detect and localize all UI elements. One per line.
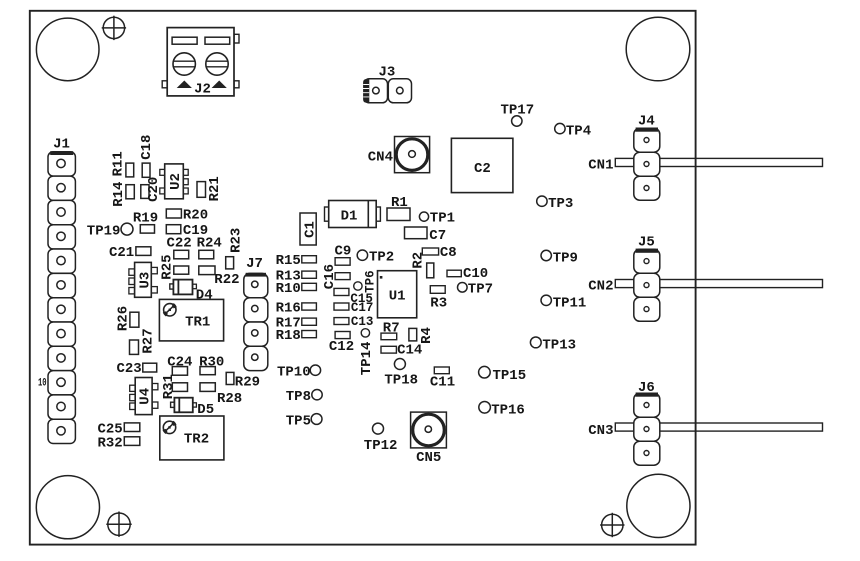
svg-text:D1: D1 <box>341 208 358 224</box>
svg-text:TP6: TP6 <box>363 270 377 293</box>
trimmer TR2 <box>160 416 224 460</box>
resistor R10 <box>276 281 317 297</box>
capacitor C16 <box>322 264 350 289</box>
svg-text:C8: C8 <box>440 245 457 261</box>
test point TP1 <box>419 210 455 226</box>
svg-text:R18: R18 <box>276 328 301 344</box>
connector pin CN2 lead bar <box>615 280 822 288</box>
svg-text:TP8: TP8 <box>286 389 311 405</box>
resistor R16 <box>276 300 317 316</box>
resistor R19 <box>133 211 158 233</box>
capacitor C2 <box>451 138 513 192</box>
pin 10 label of J1 <box>38 377 47 389</box>
test point TP8 pad <box>312 390 322 400</box>
svg-text:TR2: TR2 <box>184 432 209 448</box>
capacitor C11 <box>430 367 455 391</box>
trimmer TR1 <box>159 299 223 341</box>
capacitor C10 <box>447 266 488 282</box>
svg-text:C7: C7 <box>429 228 446 244</box>
svg-text:R10: R10 <box>276 281 301 297</box>
svg-text:TP1: TP1 <box>430 210 455 226</box>
test point TP12 <box>364 423 398 454</box>
connector J7 (4-pin header) <box>244 256 268 370</box>
resistor R17 <box>276 316 317 332</box>
capacitor C24 <box>167 355 192 376</box>
connector J5 (3-pin) <box>634 235 660 322</box>
label CN2 <box>588 278 613 294</box>
connector pin CN1 lead bar <box>615 158 822 166</box>
svg-text:TP7: TP7 <box>468 281 493 297</box>
svg-text:TP15: TP15 <box>493 368 527 384</box>
svg-text:C13: C13 <box>351 315 374 329</box>
test point TP13 <box>530 337 576 353</box>
svg-text:J2: J2 <box>194 82 211 98</box>
svg-text:TP10: TP10 <box>277 364 311 380</box>
fiducial mark bottom-left <box>106 512 131 537</box>
test point TP14 <box>359 329 375 376</box>
test point TP5 pad <box>311 414 322 425</box>
resistor R14 <box>111 182 134 207</box>
resistor R25 <box>160 254 189 279</box>
test point TP17 <box>501 102 535 126</box>
svg-text:R15: R15 <box>276 253 301 269</box>
svg-text:R27: R27 <box>140 328 156 353</box>
svg-text:R14: R14 <box>111 182 127 207</box>
svg-text:R20: R20 <box>183 208 208 224</box>
svg-text:TP13: TP13 <box>542 337 576 353</box>
board outline <box>30 11 696 545</box>
svg-text:C21: C21 <box>109 245 134 261</box>
svg-text:C1: C1 <box>302 221 318 238</box>
resistor R31 <box>161 374 188 399</box>
capacitor C17 <box>334 301 373 315</box>
svg-text:J5: J5 <box>638 235 655 251</box>
resistor R3 <box>430 286 447 312</box>
svg-text:C11: C11 <box>430 375 455 391</box>
svg-text:C17: C17 <box>351 301 374 315</box>
svg-text:TP19: TP19 <box>87 224 121 240</box>
test point TP5 <box>286 413 311 429</box>
resistor R30 <box>199 355 224 375</box>
svg-text:TP4: TP4 <box>566 124 591 140</box>
coax connector CN4 <box>368 137 430 173</box>
svg-text:C23: C23 <box>116 361 141 377</box>
capacitor C13 <box>334 315 373 329</box>
IC U1 <box>378 271 417 318</box>
svg-text:TP18: TP18 <box>384 373 418 389</box>
svg-text:CN2: CN2 <box>588 278 613 294</box>
svg-text:R22: R22 <box>214 272 239 288</box>
capacitor C21 <box>109 245 151 261</box>
capacitor C19 <box>166 223 208 239</box>
resistor R22 <box>199 266 240 288</box>
svg-text:U3: U3 <box>137 272 153 289</box>
svg-text:J1: J1 <box>53 137 70 153</box>
svg-text:R29: R29 <box>235 374 260 390</box>
svg-text:TP16: TP16 <box>491 402 525 418</box>
test point TP11 <box>541 295 586 312</box>
svg-text:U2: U2 <box>168 173 184 190</box>
svg-text:R23: R23 <box>229 228 245 253</box>
svg-text:C9: C9 <box>335 243 352 259</box>
test point TP9 <box>541 250 578 266</box>
resistor R13 <box>276 269 317 285</box>
resistor R15 <box>276 253 317 269</box>
test point TP4 <box>555 123 591 139</box>
capacitor C1 <box>300 213 318 245</box>
resistor R1 <box>387 195 410 221</box>
svg-text:J7: J7 <box>246 256 263 272</box>
label CN3 <box>588 423 613 439</box>
test point TP19 <box>87 223 133 240</box>
connector pin CN3 lead bar <box>615 423 822 431</box>
resistor R18 <box>276 328 317 344</box>
capacitor C14 <box>381 343 422 359</box>
capacitor C9 <box>335 243 352 265</box>
IC U2 <box>160 164 188 199</box>
test point TP16 <box>479 402 525 419</box>
diode D1 <box>325 201 381 228</box>
capacitor C12 <box>329 332 354 355</box>
connector J1 (12-pin header) <box>48 137 75 444</box>
terminal block J2 <box>162 28 239 98</box>
capacitor C25 <box>97 421 139 437</box>
svg-text:R21: R21 <box>207 176 223 201</box>
svg-text:CN3: CN3 <box>588 423 613 439</box>
test point TP8 <box>286 389 311 405</box>
svg-text:U4: U4 <box>138 388 154 405</box>
capacitor C20 <box>141 177 162 202</box>
svg-text:C12: C12 <box>329 339 354 355</box>
resistor R26 <box>116 306 139 331</box>
svg-text:J4: J4 <box>638 113 655 129</box>
resistor R11 <box>111 151 134 177</box>
svg-text:TP2: TP2 <box>369 249 394 265</box>
diode D5 <box>171 398 215 419</box>
resistor R2 <box>411 252 434 278</box>
svg-text:10: 10 <box>38 377 47 389</box>
capacitor C8 <box>422 245 456 261</box>
connector J4 (3-pin) <box>634 113 660 200</box>
svg-text:J3: J3 <box>378 64 395 80</box>
svg-text:U1: U1 <box>389 289 406 305</box>
svg-text:J6: J6 <box>638 380 655 396</box>
resistor R21 <box>197 176 223 201</box>
capacitor C15 <box>334 288 373 306</box>
svg-text:TP12: TP12 <box>364 438 398 454</box>
resistor R29 <box>226 372 260 390</box>
resistor R7 <box>381 321 400 340</box>
test point TP7 <box>458 281 494 297</box>
IC U3 <box>129 262 157 297</box>
svg-text:C18: C18 <box>139 135 155 160</box>
capacitor C23 <box>116 361 156 377</box>
svg-text:C2: C2 <box>474 161 491 177</box>
capacitor C22 <box>167 236 192 259</box>
connector J6 (3-pin) <box>634 380 660 465</box>
resistor R20 <box>166 208 208 224</box>
svg-text:C22: C22 <box>167 236 192 252</box>
mounting hole top-right <box>626 17 690 81</box>
svg-text:C14: C14 <box>397 343 422 359</box>
svg-text:TP14: TP14 <box>359 342 375 376</box>
resistor R32 <box>97 436 139 452</box>
svg-text:TP3: TP3 <box>548 196 573 212</box>
svg-text:R32: R32 <box>97 436 122 452</box>
diode D4 <box>170 280 213 304</box>
fiducial mark top-left <box>102 16 126 40</box>
test point TP6 <box>354 270 378 293</box>
svg-text:CN4: CN4 <box>368 150 393 166</box>
svg-text:TP11: TP11 <box>553 296 587 312</box>
resistor R28 <box>200 383 242 407</box>
svg-text:CN1: CN1 <box>588 158 613 174</box>
label CN1 <box>588 158 613 174</box>
svg-text:R11: R11 <box>111 151 127 176</box>
mounting hole bottom-right <box>627 474 690 537</box>
test point TP10 <box>277 364 311 380</box>
capacitor C7 <box>405 227 447 244</box>
test point TP3 <box>537 196 574 212</box>
svg-text:TP9: TP9 <box>553 251 578 267</box>
svg-text:R4: R4 <box>419 327 435 344</box>
jumper J3 <box>363 64 412 102</box>
svg-text:TP5: TP5 <box>286 413 311 429</box>
svg-text:C10: C10 <box>463 266 488 282</box>
svg-text:R28: R28 <box>217 391 242 407</box>
resistor R27 <box>130 328 157 354</box>
test point TP18 <box>384 359 418 389</box>
test point TP15 <box>479 366 527 383</box>
mounting hole bottom-left <box>36 476 99 539</box>
resistor R24 <box>197 236 222 259</box>
svg-text:TR1: TR1 <box>185 315 210 331</box>
test point TP2 <box>357 249 394 265</box>
test point TP10 pad <box>310 365 320 375</box>
resistor R4 <box>409 327 435 344</box>
svg-text:R16: R16 <box>276 300 301 316</box>
svg-text:R3: R3 <box>430 295 447 311</box>
svg-text:R24: R24 <box>197 236 222 252</box>
fiducial mark bottom-right <box>600 513 624 537</box>
svg-text:CN5: CN5 <box>416 450 441 466</box>
capacitor C18 <box>139 135 155 178</box>
resistor R23 <box>226 228 245 269</box>
mounting hole top-left <box>36 18 99 81</box>
IC U4 <box>130 378 158 415</box>
coax connector CN5 <box>411 412 447 466</box>
